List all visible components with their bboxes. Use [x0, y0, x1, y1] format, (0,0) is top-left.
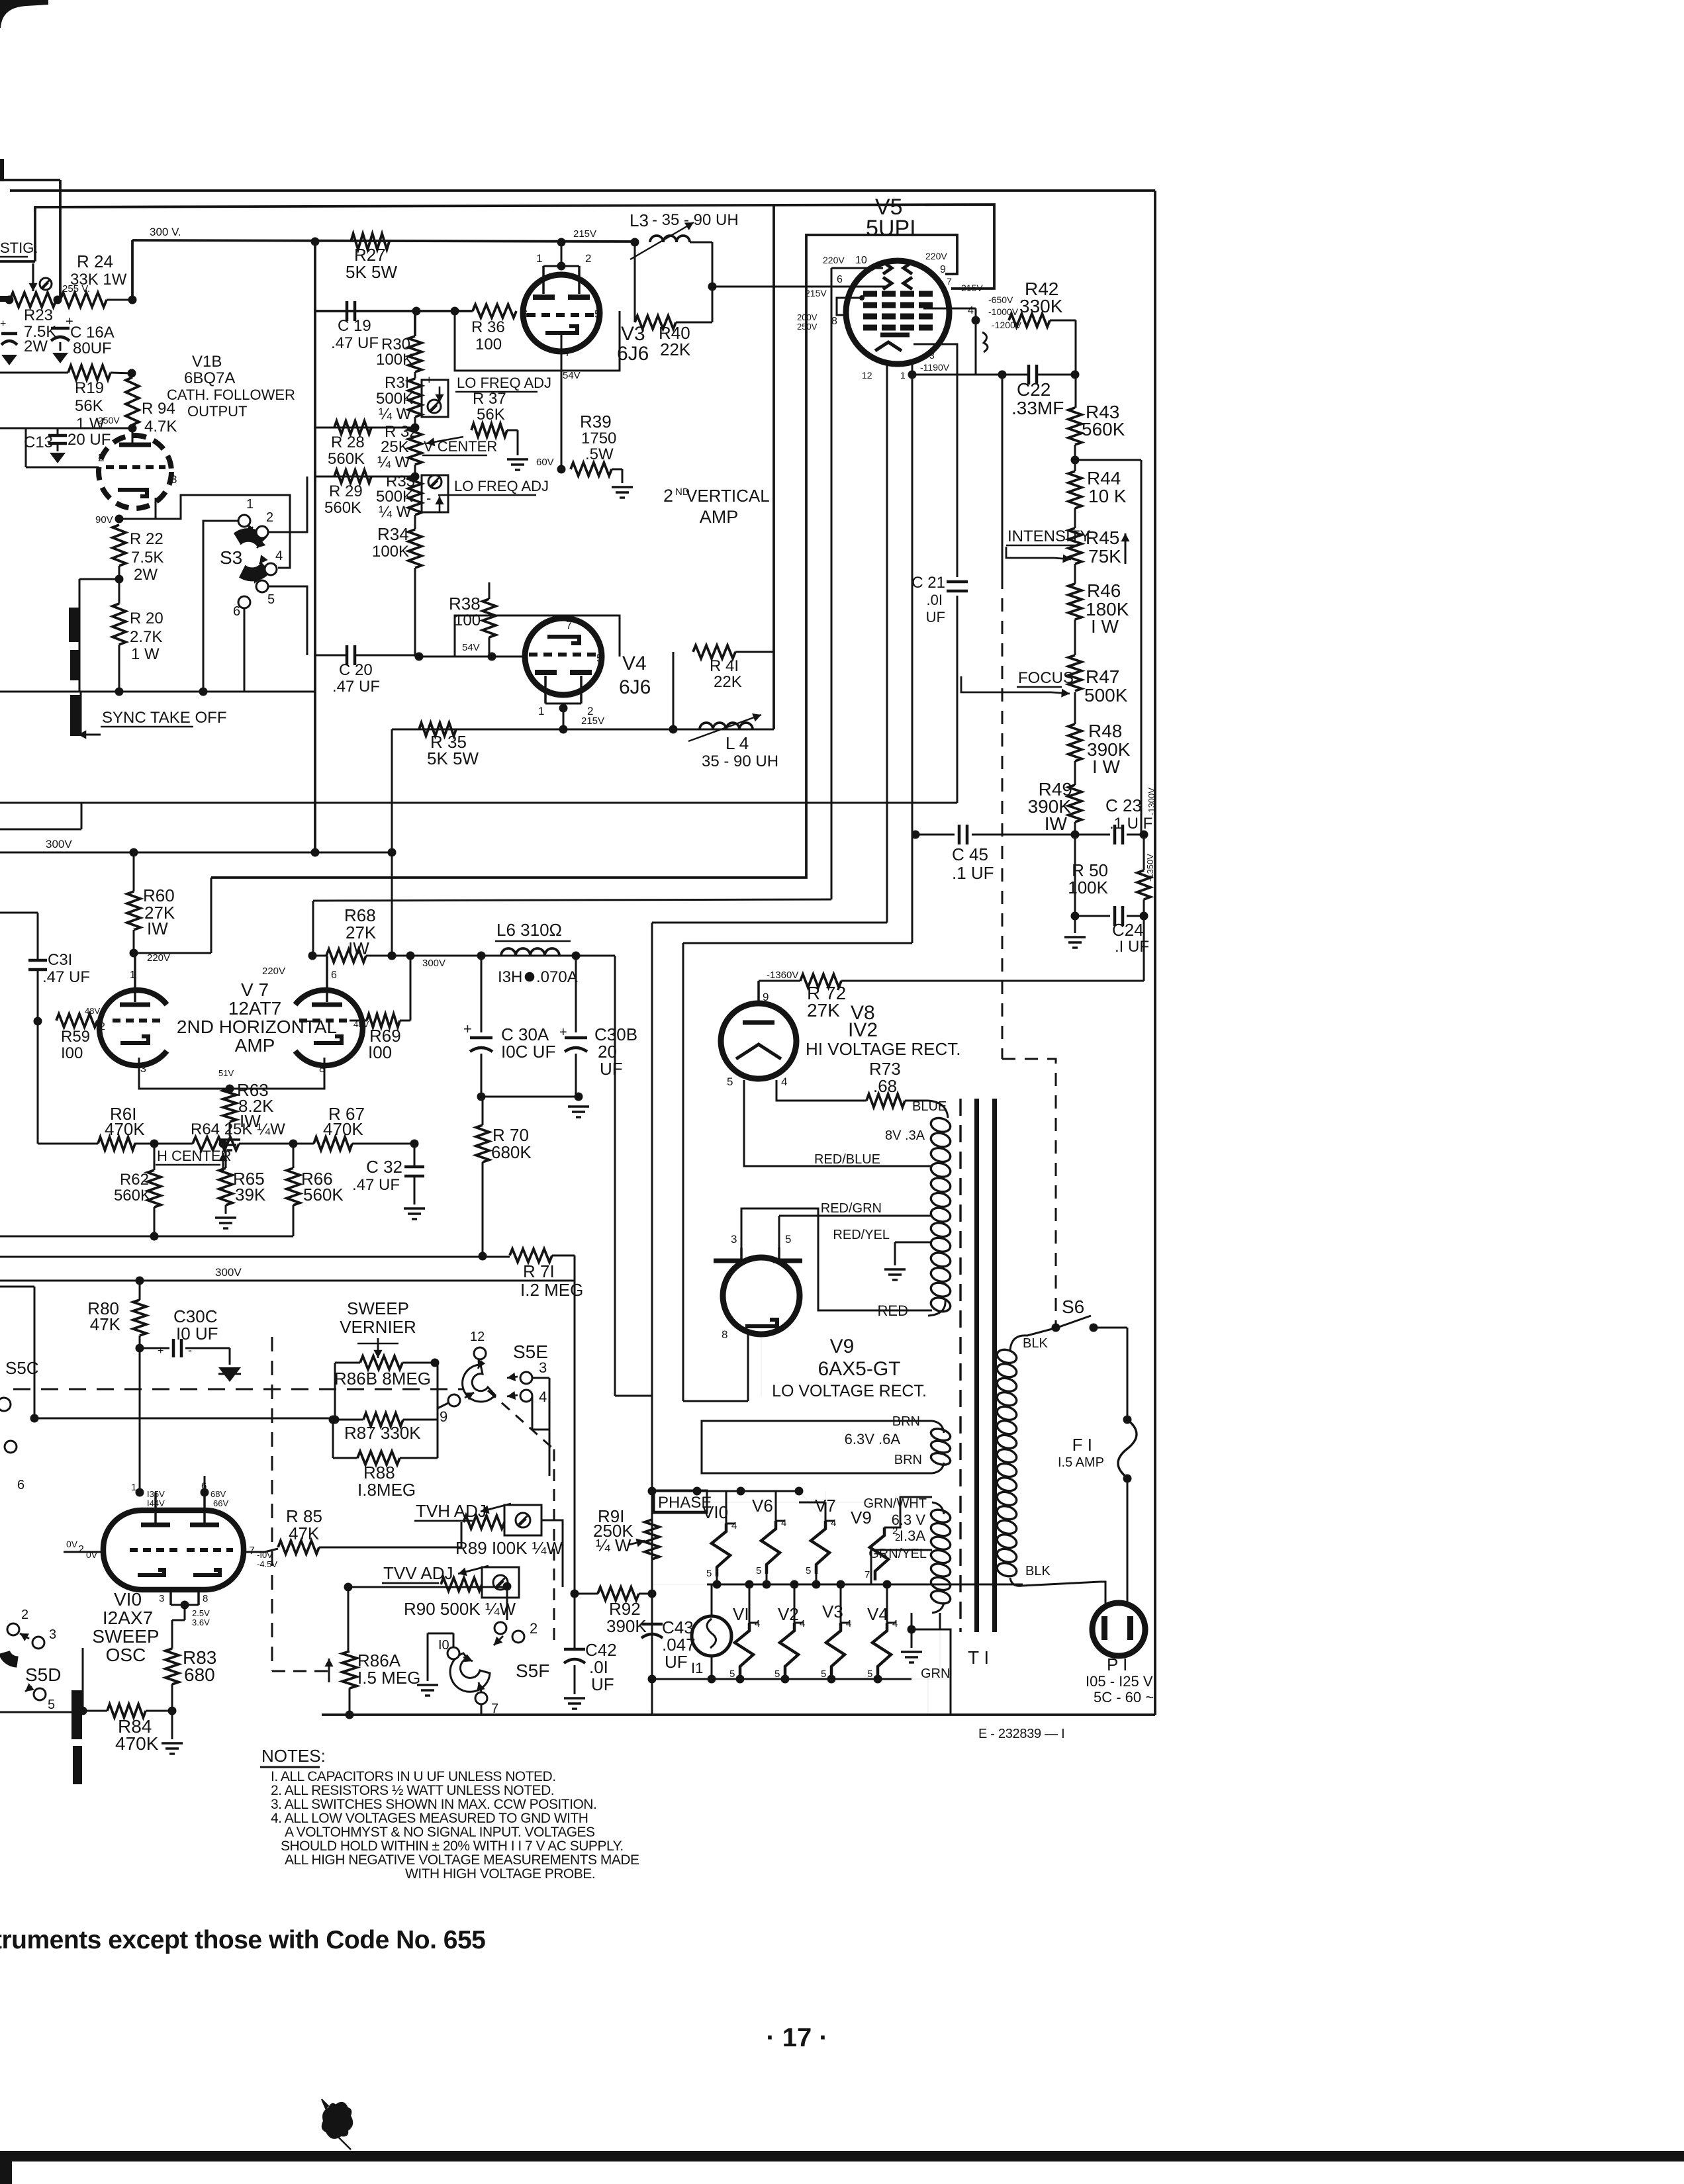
svg-text:-: -	[188, 1343, 192, 1357]
svg-text:R19: R19	[75, 379, 104, 397]
svg-text:3.6V: 3.6V	[192, 1617, 210, 1627]
svg-text:5: 5	[821, 1668, 826, 1680]
svg-text:6J6: 6J6	[617, 343, 649, 365]
svg-text:V CENTER: V CENTER	[424, 438, 497, 455]
svg-text:-: -	[426, 490, 431, 506]
svg-text:8: 8	[203, 1593, 208, 1604]
svg-text:0V: 0V	[86, 1549, 98, 1560]
svg-text:GRN: GRN	[921, 1666, 950, 1681]
svg-text:6: 6	[17, 1478, 24, 1492]
svg-text:54V: 54V	[563, 370, 581, 381]
svg-text:R39: R39	[580, 412, 612, 432]
svg-text:5: 5	[806, 1565, 811, 1576]
svg-text:215V: 215V	[573, 228, 596, 240]
svg-text:R 24: R 24	[77, 251, 113, 271]
svg-text:4: 4	[800, 1618, 805, 1629]
svg-text:BLK: BLK	[1023, 1336, 1048, 1351]
svg-text:10 K: 10 K	[1088, 486, 1127, 506]
svg-text:IW: IW	[1045, 813, 1068, 834]
svg-text:7: 7	[947, 276, 952, 287]
svg-text:6.3V .6A: 6.3V .6A	[845, 1431, 901, 1447]
svg-text:5: 5	[596, 652, 602, 664]
svg-text:560K: 560K	[324, 499, 361, 517]
svg-text:2: 2	[663, 486, 673, 506]
svg-text:7: 7	[491, 1702, 498, 1716]
svg-text:300V: 300V	[215, 1266, 242, 1279]
svg-text:2W: 2W	[24, 338, 48, 355]
svg-text:8V .3A: 8V .3A	[885, 1128, 925, 1143]
svg-text:300V: 300V	[46, 838, 72, 850]
svg-text:-4.5V: -4.5V	[257, 1559, 277, 1569]
svg-text:T I: T I	[968, 1647, 989, 1668]
svg-text:.0I: .0I	[927, 592, 943, 608]
svg-text:V9: V9	[830, 1336, 855, 1357]
svg-text:+: +	[0, 318, 6, 330]
svg-text:2: 2	[78, 1544, 84, 1555]
svg-text:R46: R46	[1087, 580, 1121, 601]
svg-text:NOTES:: NOTES:	[261, 1746, 326, 1766]
svg-text:RED/YEL: RED/YEL	[833, 1228, 890, 1242]
svg-text:100: 100	[454, 612, 481, 629]
svg-text:4: 4	[968, 305, 974, 316]
svg-text:75K: 75K	[1088, 546, 1121, 567]
svg-text:OSC: OSC	[106, 1645, 146, 1665]
svg-text:4: 4	[731, 1520, 737, 1531]
svg-text:250V: 250V	[797, 322, 818, 332]
svg-text:V6: V6	[752, 1496, 773, 1516]
svg-text:OUTPUT: OUTPUT	[187, 403, 247, 420]
svg-text:2.7K: 2.7K	[130, 628, 162, 646]
svg-text:5: 5	[729, 1668, 735, 1680]
svg-text:R 37: R 37	[473, 390, 506, 408]
svg-text:C 20: C 20	[339, 661, 373, 679]
svg-text:WITH HIGH VOLTAGE PROBE.: WITH HIGH VOLTAGE PROBE.	[405, 1866, 595, 1882]
svg-text:S5F: S5F	[516, 1661, 549, 1681]
svg-text:4: 4	[275, 549, 283, 563]
svg-text:470K: 470K	[105, 1119, 145, 1139]
svg-text:I.5 AMP: I.5 AMP	[1058, 1455, 1104, 1470]
svg-text:ALL HIGH NEGATIVE VOLTAGE M: ALL HIGH NEGATIVE VOLTAGE MEASUREMENTS M…	[285, 1852, 639, 1868]
svg-text:RED/GRN: RED/GRN	[821, 1201, 882, 1216]
svg-text:6: 6	[233, 604, 240, 619]
svg-text:560K: 560K	[328, 450, 365, 468]
svg-text:255 V.: 255 V.	[62, 283, 90, 295]
svg-text:UF: UF	[665, 1652, 688, 1672]
svg-text:60V: 60V	[536, 457, 554, 468]
svg-text:3. ALL SWITCHES SHOWN IN MA: 3. ALL SWITCHES SHOWN IN MAX. CCW POSITI…	[271, 1797, 596, 1812]
svg-text:UF: UF	[926, 609, 945, 625]
svg-text:3: 3	[140, 1064, 146, 1075]
svg-text:.47 UF: .47 UF	[42, 968, 90, 986]
svg-text:4. ALL LOW VOLTAGES MEASURE: 4. ALL LOW VOLTAGES MEASURED TO GND WITH	[271, 1811, 588, 1826]
svg-text:I00: I00	[61, 1044, 83, 1062]
svg-text:10: 10	[855, 255, 867, 266]
svg-text:8: 8	[722, 1328, 727, 1341]
svg-text:BLK: BLK	[1025, 1564, 1051, 1578]
svg-text:¼ W: ¼ W	[596, 1535, 631, 1555]
svg-text:E - 232839 — I: E - 232839 — I	[978, 1727, 1064, 1741]
svg-text:I W: I W	[1092, 756, 1121, 777]
svg-text:5: 5	[727, 1075, 733, 1088]
svg-text:R89 I00K ¼W: R89 I00K ¼W	[455, 1538, 563, 1558]
svg-text:5: 5	[48, 1698, 55, 1712]
svg-text:R59: R59	[61, 1028, 90, 1046]
svg-text:V1B: V1B	[192, 353, 222, 371]
svg-text:6: 6	[331, 970, 337, 981]
svg-text:I. ALL CAPACITORS IN U UF U: I. ALL CAPACITORS IN U UF UNLESS NOTED.	[271, 1769, 556, 1784]
svg-text:A VOLTOHMYST & NO SIGNAL I: A VOLTOHMYST & NO SIGNAL INPUT. VOLTAGES	[285, 1825, 595, 1840]
svg-text:I00: I00	[368, 1042, 392, 1062]
svg-text:H CENTER: H CENTER	[157, 1148, 231, 1164]
svg-text:I35V: I35V	[147, 1489, 165, 1499]
svg-text:100K: 100K	[372, 543, 409, 561]
svg-text:66V: 66V	[213, 1498, 228, 1508]
svg-text:4.7K: 4.7K	[144, 418, 177, 435]
svg-text:-1190V: -1190V	[920, 362, 950, 373]
svg-text:3: 3	[539, 1359, 547, 1376]
svg-text:2: 2	[98, 451, 104, 464]
svg-text:R 20: R 20	[130, 610, 164, 627]
svg-text:220V: 220V	[147, 952, 170, 964]
svg-text:12: 12	[470, 1330, 485, 1344]
svg-text:CATH. FOLLOWER: CATH. FOLLOWER	[167, 387, 295, 403]
svg-text:V2: V2	[778, 1604, 799, 1624]
svg-text:2: 2	[585, 252, 591, 265]
svg-text:I1: I1	[691, 1660, 703, 1676]
svg-text:R 7I: R 7I	[523, 1261, 555, 1281]
svg-text:GRN/YEL: GRN/YEL	[868, 1547, 927, 1561]
svg-text:2W: 2W	[134, 566, 158, 584]
svg-text:.1 U F: .1 U F	[1109, 815, 1152, 833]
svg-text:20 UF: 20 UF	[68, 431, 111, 449]
svg-text:+: +	[158, 1345, 164, 1357]
svg-text:680: 680	[184, 1664, 215, 1685]
svg-text:200V: 200V	[797, 312, 818, 322]
svg-text:-1300V: -1300V	[1146, 788, 1156, 815]
svg-text:2: 2	[21, 1608, 28, 1622]
svg-text:7.5K: 7.5K	[131, 549, 164, 567]
svg-text:R48: R48	[1088, 721, 1122, 741]
svg-text:C3I: C3I	[48, 951, 72, 969]
svg-text:LO FREQ ADJ: LO FREQ ADJ	[457, 375, 551, 391]
svg-text:215V: 215V	[581, 715, 604, 727]
svg-text:220V: 220V	[925, 251, 947, 261]
svg-text:R23: R23	[24, 306, 53, 324]
svg-text:SHOULD HOLD WITHIN ± 20% WIT: SHOULD HOLD WITHIN ± 20% WITH I I 7 V AC…	[281, 1839, 624, 1854]
svg-text:5: 5	[785, 1233, 791, 1246]
svg-text:4: 4	[539, 1388, 547, 1405]
svg-text:3: 3	[171, 473, 177, 486]
svg-text:HI VOLTAGE RECT.: HI VOLTAGE RECT.	[806, 1039, 961, 1059]
svg-text:220V: 220V	[262, 966, 285, 977]
svg-text:48V: 48V	[85, 1006, 100, 1016]
svg-text:C 19: C 19	[338, 317, 371, 335]
svg-text:GRN/WHT: GRN/WHT	[863, 1496, 927, 1511]
svg-text:100K: 100K	[376, 351, 413, 369]
svg-text:P I: P I	[1107, 1655, 1127, 1674]
svg-text:S5D: S5D	[25, 1664, 61, 1685]
svg-text:6BQ7A: 6BQ7A	[184, 369, 235, 387]
svg-text:V 7: V 7	[241, 979, 269, 1000]
svg-text:2: 2	[99, 1021, 105, 1032]
svg-text:51V: 51V	[218, 1068, 234, 1078]
svg-text:2. ALL RESISTORS ½ WATT UNLE: 2. ALL RESISTORS ½ WATT UNLESS NOTED.	[271, 1783, 554, 1798]
svg-text:1: 1	[246, 497, 254, 512]
svg-text:22K: 22K	[660, 340, 691, 359]
svg-text:AMP: AMP	[700, 507, 739, 527]
svg-text:I0C UF: I0C UF	[501, 1042, 555, 1062]
svg-text:I44V: I44V	[147, 1498, 165, 1508]
svg-text:12AT7: 12AT7	[228, 998, 281, 1019]
svg-text:7: 7	[865, 1569, 870, 1580]
svg-text:250V: 250V	[98, 415, 120, 426]
svg-text:R38: R38	[449, 594, 481, 614]
svg-text:VI0: VI0	[114, 1589, 142, 1610]
svg-text:VI0: VI0	[702, 1502, 728, 1522]
svg-text:12: 12	[862, 370, 872, 381]
svg-text:2: 2	[530, 1620, 538, 1637]
svg-text:470K: 470K	[323, 1119, 363, 1139]
svg-text:470K: 470K	[115, 1733, 159, 1754]
svg-text:4: 4	[892, 1618, 898, 1629]
svg-text:R34: R34	[377, 524, 409, 544]
svg-text:56K: 56K	[477, 406, 505, 424]
svg-text:LO FREQ ADJ: LO FREQ ADJ	[454, 478, 549, 494]
svg-text:1750: 1750	[581, 430, 616, 447]
svg-text:+: +	[426, 373, 433, 387]
svg-text:R87 330K: R87 330K	[344, 1423, 421, 1443]
svg-text:5K 5W: 5K 5W	[346, 262, 397, 282]
svg-text:C 16A: C 16A	[70, 324, 115, 341]
svg-text:35 - 90 UH: 35 - 90 UH	[702, 752, 778, 770]
svg-text:6: 6	[520, 308, 526, 320]
svg-text:FOCUS: FOCUS	[1018, 669, 1074, 687]
svg-text:27K: 27K	[807, 1000, 840, 1021]
svg-text:+: +	[463, 1021, 472, 1037]
svg-text:truments except those with Cod: truments except those with Code No. 655	[0, 1926, 485, 1954]
svg-text:R 29: R 29	[329, 482, 363, 500]
svg-text:6J6: 6J6	[619, 676, 651, 698]
svg-text:47K: 47K	[289, 1524, 320, 1543]
svg-text:5: 5	[267, 592, 275, 607]
svg-text:L6 310Ω: L6 310Ω	[496, 920, 562, 940]
svg-text:- 35 - 90 UH: - 35 - 90 UH	[652, 211, 739, 229]
svg-text:R86B 8MEG: R86B 8MEG	[334, 1369, 431, 1388]
svg-text:R64 25K ¼W: R64 25K ¼W	[191, 1120, 285, 1138]
svg-text:9: 9	[440, 1408, 447, 1425]
svg-text:C 21: C 21	[912, 574, 945, 592]
svg-text:560K: 560K	[1082, 419, 1125, 439]
svg-text:C 32: C 32	[366, 1157, 402, 1177]
svg-text:5UPI: 5UPI	[866, 216, 916, 241]
svg-text:5C - 60 ~: 5C - 60 ~	[1094, 1689, 1154, 1706]
svg-text:.070A: .070A	[536, 968, 578, 986]
svg-text:1: 1	[130, 970, 136, 981]
svg-text:500K: 500K	[1084, 685, 1128, 705]
svg-text:215V: 215V	[961, 283, 983, 293]
svg-text:6: 6	[837, 274, 843, 285]
svg-text:4: 4	[781, 1518, 786, 1529]
svg-text:I2AX7: I2AX7	[103, 1608, 153, 1628]
svg-text:F I: F I	[1072, 1435, 1092, 1455]
svg-text:.47 UF: .47 UF	[332, 678, 380, 696]
svg-text:S6: S6	[1062, 1297, 1084, 1317]
svg-text:390K: 390K	[606, 1616, 647, 1636]
svg-text:· 17 ·: · 17 ·	[766, 2023, 827, 2052]
svg-text:56K: 56K	[75, 397, 103, 415]
svg-text:IV2: IV2	[848, 1019, 878, 1041]
svg-text:330K: 330K	[1019, 296, 1063, 316]
svg-text:3: 3	[731, 1233, 737, 1246]
svg-text:1: 1	[536, 252, 542, 265]
svg-text:4: 4	[831, 1518, 836, 1529]
svg-text:INTENSITY: INTENSITY	[1007, 527, 1090, 545]
svg-text:R45: R45	[1086, 527, 1119, 548]
svg-text:C24: C24	[1112, 920, 1144, 940]
svg-text:.1 UF: .1 UF	[952, 863, 994, 883]
svg-text:6: 6	[522, 652, 528, 664]
svg-text:UF: UF	[591, 1674, 614, 1694]
svg-text:I0: I0	[438, 1638, 449, 1653]
svg-text:R 36: R 36	[471, 318, 505, 336]
svg-text:4: 4	[781, 1075, 787, 1088]
svg-text:3: 3	[49, 1627, 56, 1642]
svg-text:8: 8	[831, 316, 837, 327]
svg-text:560K: 560K	[303, 1185, 344, 1205]
svg-text:7: 7	[565, 346, 571, 359]
svg-text:V4: V4	[622, 653, 647, 674]
svg-text:.5W: .5W	[585, 445, 614, 463]
svg-text:VERNIER: VERNIER	[340, 1317, 416, 1337]
svg-text:7: 7	[566, 619, 572, 631]
svg-text:6AX5-GT: 6AX5-GT	[818, 1358, 900, 1380]
svg-text:VERTICAL: VERTICAL	[686, 486, 770, 506]
svg-text:80UF: 80UF	[73, 340, 112, 357]
svg-text:3: 3	[929, 350, 935, 361]
svg-text:I.5 MEG: I.5 MEG	[357, 1668, 420, 1688]
svg-text:.68: .68	[873, 1076, 897, 1096]
svg-text:R90 500K ¼W: R90 500K ¼W	[404, 1599, 516, 1619]
svg-text:L 4: L 4	[725, 733, 749, 753]
svg-text:5: 5	[867, 1668, 872, 1680]
svg-text:-1360V: -1360V	[767, 970, 798, 981]
svg-text:1: 1	[131, 1482, 136, 1493]
svg-text:-1000V: -1000V	[988, 306, 1019, 317]
svg-text:R62: R62	[120, 1171, 149, 1189]
svg-text:VI: VI	[733, 1604, 749, 1624]
svg-text:R47: R47	[1086, 666, 1119, 687]
svg-text:L3: L3	[630, 210, 649, 230]
svg-text:1: 1	[900, 370, 906, 381]
svg-text:I.3A: I.3A	[900, 1527, 925, 1544]
svg-text:I05 - I25 V: I05 - I25 V	[1086, 1673, 1153, 1690]
svg-text:LO VOLTAGE RECT.: LO VOLTAGE RECT.	[772, 1382, 927, 1400]
svg-text:R 4I: R 4I	[710, 657, 739, 675]
svg-text:39K: 39K	[235, 1185, 266, 1205]
svg-text:3: 3	[159, 1593, 164, 1604]
svg-text:5: 5	[756, 1565, 761, 1576]
svg-text:5: 5	[594, 308, 600, 320]
svg-text:215V: 215V	[805, 288, 827, 298]
svg-text:2ND HORIZONTAL: 2ND HORIZONTAL	[177, 1017, 337, 1037]
svg-text:680K: 680K	[491, 1142, 532, 1162]
svg-text:SWEEP: SWEEP	[92, 1626, 159, 1647]
svg-text:UF: UF	[600, 1059, 623, 1079]
svg-text:C22: C22	[1017, 379, 1051, 400]
svg-text:R 28: R 28	[331, 433, 365, 451]
svg-text:22K: 22K	[714, 673, 742, 691]
svg-text:68V: 68V	[210, 1489, 226, 1499]
svg-text:AMP: AMP	[235, 1035, 275, 1056]
svg-text:300V: 300V	[422, 958, 445, 969]
svg-text:IW: IW	[147, 919, 168, 938]
svg-text:-1350V: -1350V	[1145, 854, 1155, 882]
svg-text:9: 9	[940, 264, 946, 275]
svg-text:2.5V: 2.5V	[192, 1608, 210, 1618]
svg-text:-650V: -650V	[988, 295, 1013, 305]
svg-text:R3I: R3I	[385, 374, 409, 392]
svg-text:S3: S3	[220, 547, 242, 568]
svg-text:C 23: C 23	[1105, 796, 1142, 815]
svg-text:.47 UF: .47 UF	[352, 1176, 400, 1194]
svg-text:¼ W: ¼ W	[379, 405, 412, 423]
svg-text:I W: I W	[1091, 616, 1119, 637]
svg-text:220V: 220V	[823, 255, 845, 265]
svg-text:RED/BLUE: RED/BLUE	[814, 1152, 880, 1167]
svg-text:SYNC TAKE OFF: SYNC TAKE OFF	[102, 709, 226, 727]
svg-text:V9: V9	[851, 1508, 872, 1527]
svg-text:5: 5	[706, 1568, 712, 1579]
svg-text:100K: 100K	[1068, 878, 1108, 897]
svg-text:.33MF: .33MF	[1011, 398, 1064, 418]
svg-text:¼ W: ¼ W	[377, 453, 410, 471]
svg-text:SWEEP: SWEEP	[347, 1298, 409, 1318]
svg-text:.47 UF: .47 UF	[331, 334, 379, 352]
svg-text:V4: V4	[867, 1604, 888, 1624]
svg-text:2: 2	[266, 510, 273, 525]
svg-text:0V: 0V	[66, 1539, 78, 1549]
svg-text:C 45: C 45	[952, 844, 988, 864]
svg-text:90V: 90V	[95, 514, 113, 525]
svg-text:I3H: I3H	[498, 968, 522, 986]
svg-text:300 V.: 300 V.	[150, 226, 181, 238]
svg-text:BRN: BRN	[894, 1453, 922, 1467]
svg-text:¼ W: ¼ W	[379, 503, 412, 521]
svg-text:54V: 54V	[462, 642, 480, 653]
svg-text:9: 9	[763, 991, 769, 1003]
svg-text:5K 5W: 5K 5W	[427, 749, 479, 768]
svg-text:100: 100	[475, 336, 502, 353]
svg-text:STIG.: STIG.	[0, 240, 38, 256]
svg-text:560K: 560K	[114, 1187, 151, 1205]
svg-text:1 W: 1 W	[131, 645, 160, 663]
svg-text:1: 1	[538, 705, 544, 717]
svg-text:4: 4	[755, 1618, 760, 1629]
svg-text:5: 5	[774, 1668, 780, 1680]
svg-text:I.8MEG: I.8MEG	[357, 1480, 416, 1500]
svg-text:R 22: R 22	[130, 530, 164, 548]
svg-text:47K: 47K	[90, 1314, 121, 1334]
svg-text:4: 4	[846, 1618, 851, 1629]
